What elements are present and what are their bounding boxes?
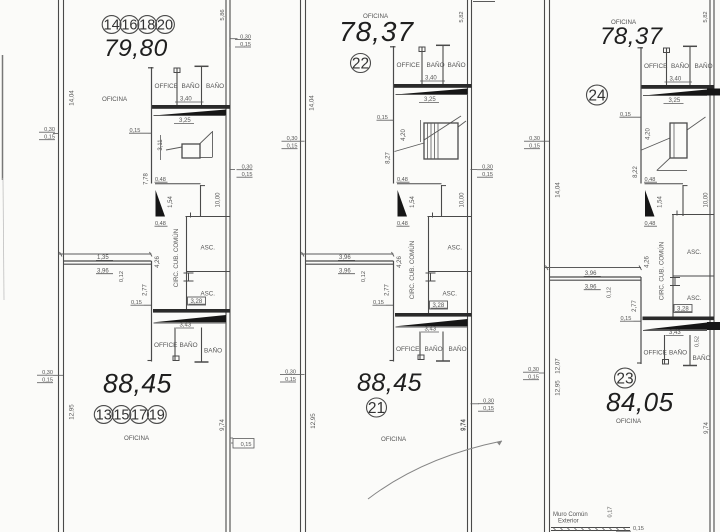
svg-text:14,04: 14,04 — [309, 95, 316, 111]
svg-text:BAÑO: BAÑO — [671, 61, 689, 70]
svg-text:OFICINA: OFICINA — [102, 96, 128, 103]
svg-text:1,54: 1,54 — [168, 196, 174, 208]
svg-text:BAÑO: BAÑO — [182, 81, 200, 90]
svg-text:OFFICE: OFFICE — [644, 63, 667, 70]
svg-text:4,26: 4,26 — [645, 256, 651, 268]
svg-text:4,20: 4,20 — [646, 128, 652, 140]
svg-text:OFICINA: OFICINA — [616, 418, 642, 425]
svg-text:3,11: 3,11 — [158, 139, 164, 151]
svg-text:1,54: 1,54 — [658, 196, 664, 208]
svg-text:12,95: 12,95 — [310, 413, 317, 429]
svg-text:OFFICE: OFFICE — [397, 62, 420, 69]
svg-text:15: 15 — [113, 408, 129, 424]
svg-text:BAÑO: BAÑO — [695, 61, 713, 70]
svg-text:BAÑO: BAÑO — [206, 81, 224, 90]
svg-text:17: 17 — [131, 408, 147, 424]
svg-text:78,37: 78,37 — [339, 16, 414, 47]
svg-text:9,74: 9,74 — [220, 419, 226, 431]
svg-text:8,22: 8,22 — [633, 166, 639, 178]
svg-text:ASC.: ASC. — [687, 249, 702, 256]
svg-text:22: 22 — [352, 55, 369, 72]
svg-text:BAÑO: BAÑO — [204, 346, 222, 355]
svg-text:12,95: 12,95 — [555, 380, 562, 396]
svg-text:BAÑO: BAÑO — [669, 348, 687, 357]
svg-text:BAÑO: BAÑO — [449, 344, 467, 353]
svg-text:CIRC. CUB. COMÚN: CIRC. CUB. COMÚN — [173, 229, 180, 287]
svg-text:8,27: 8,27 — [386, 152, 392, 164]
svg-text:9,74: 9,74 — [461, 419, 467, 431]
svg-text:0,15: 0,15 — [241, 442, 252, 448]
svg-text:BAÑO: BAÑO — [180, 340, 198, 349]
svg-text:2,77: 2,77 — [632, 300, 638, 312]
svg-text:14,04: 14,04 — [555, 182, 562, 198]
svg-text:BAÑO: BAÑO — [425, 344, 443, 353]
svg-text:2,77: 2,77 — [143, 284, 149, 296]
svg-text:0,17: 0,17 — [607, 507, 613, 518]
svg-text:1,54: 1,54 — [410, 196, 416, 208]
svg-text:0,15: 0,15 — [633, 526, 644, 532]
svg-text:7,78: 7,78 — [144, 173, 150, 185]
svg-text:Muro Común: Muro Común — [553, 512, 588, 518]
svg-text:9,74: 9,74 — [704, 422, 710, 434]
svg-text:ASC.: ASC. — [687, 295, 702, 302]
svg-text:CIRC. CUB. COMÚN: CIRC. CUB. COMÚN — [659, 242, 666, 300]
svg-text:ASC.: ASC. — [201, 245, 216, 252]
svg-text:5,82: 5,82 — [459, 11, 465, 22]
svg-text:20: 20 — [157, 18, 173, 34]
svg-text:0,12: 0,12 — [119, 271, 125, 282]
svg-text:10,00: 10,00 — [460, 192, 466, 208]
svg-text:18: 18 — [139, 18, 155, 34]
svg-text:BAÑO: BAÑO — [427, 60, 445, 69]
svg-text:10,00: 10,00 — [216, 192, 222, 208]
svg-text:14,04: 14,04 — [69, 90, 76, 106]
svg-text:4,20: 4,20 — [401, 129, 407, 141]
svg-text:13: 13 — [96, 408, 112, 424]
svg-text:79,80: 79,80 — [104, 35, 168, 62]
svg-text:CIRC. CUB. COMÚN: CIRC. CUB. COMÚN — [409, 241, 416, 299]
svg-text:4,26: 4,26 — [155, 256, 161, 268]
svg-text:88,45: 88,45 — [103, 369, 172, 399]
svg-text:10,00: 10,00 — [704, 192, 710, 208]
svg-text:21: 21 — [368, 400, 385, 417]
svg-text:OFICINA: OFICINA — [381, 436, 407, 443]
svg-text:OFFICE: OFFICE — [155, 83, 178, 90]
svg-text:4,26: 4,26 — [397, 256, 403, 268]
svg-text:12,95: 12,95 — [69, 404, 76, 420]
svg-text:14: 14 — [104, 18, 120, 34]
svg-text:OFFICE: OFFICE — [644, 350, 667, 357]
svg-text:5,86: 5,86 — [220, 9, 226, 20]
svg-text:0,12: 0,12 — [361, 271, 367, 282]
svg-text:16: 16 — [121, 18, 137, 34]
svg-text:84,05: 84,05 — [606, 387, 674, 417]
svg-text:BAÑO: BAÑO — [693, 353, 711, 362]
svg-text:BAÑO: BAÑO — [448, 60, 466, 69]
svg-text:0,52: 0,52 — [694, 336, 700, 347]
svg-text:78,37: 78,37 — [600, 23, 664, 50]
svg-text:24: 24 — [588, 87, 606, 104]
svg-text:0,12: 0,12 — [607, 287, 613, 298]
svg-text:ASC.: ASC. — [448, 245, 463, 252]
svg-text:ASC.: ASC. — [201, 291, 216, 298]
svg-text:OFFICE: OFFICE — [396, 346, 419, 353]
svg-text:OFICINA: OFICINA — [124, 435, 150, 442]
svg-text:OFFICE: OFFICE — [154, 342, 177, 349]
svg-text:23: 23 — [616, 370, 633, 387]
svg-text:Exterior: Exterior — [558, 519, 579, 525]
svg-text:12,07: 12,07 — [555, 358, 562, 374]
svg-text:19: 19 — [149, 408, 165, 424]
svg-text:2,77: 2,77 — [385, 284, 391, 296]
svg-text:ASC.: ASC. — [443, 291, 458, 298]
svg-text:88,45: 88,45 — [357, 369, 422, 397]
svg-text:5,82: 5,82 — [703, 11, 709, 22]
